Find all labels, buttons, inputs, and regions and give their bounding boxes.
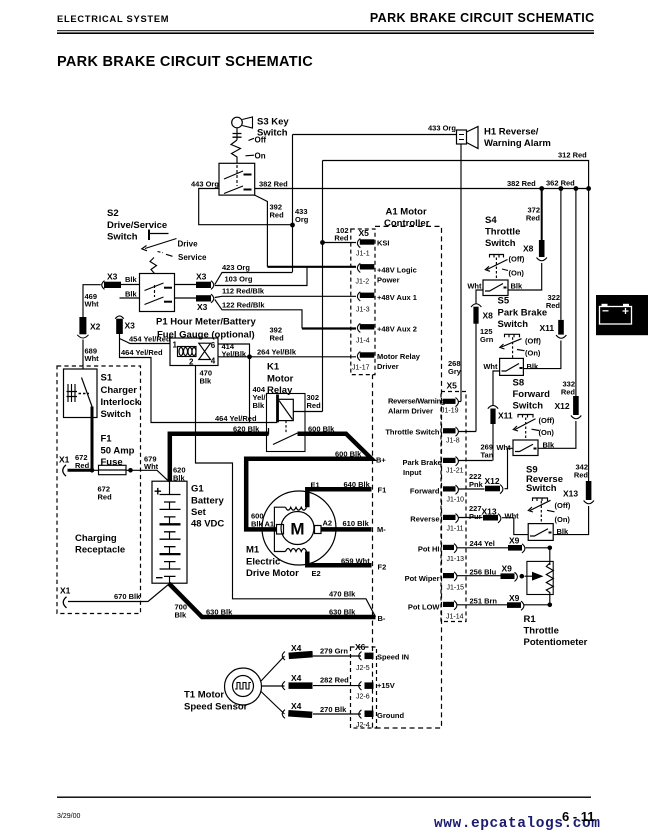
svg-text:X1: X1: [59, 455, 70, 465]
svg-text:X3: X3: [107, 272, 118, 282]
svg-text:KSI: KSI: [377, 239, 390, 248]
svg-text:+15V: +15V: [377, 681, 395, 690]
svg-text:Throttle: Throttle: [524, 626, 559, 637]
svg-text:Blk: Blk: [253, 401, 266, 410]
svg-text:J1-10: J1-10: [447, 497, 465, 504]
svg-text:659 Wht: 659 Wht: [341, 557, 370, 566]
svg-text:Pnk: Pnk: [469, 480, 484, 489]
svg-text:6: 6: [211, 341, 216, 350]
svg-text:103 Org: 103 Org: [225, 275, 253, 284]
svg-text:(Off): (Off): [525, 337, 541, 346]
svg-text:Wht: Wht: [483, 362, 498, 371]
svg-text:A2: A2: [323, 519, 333, 528]
svg-text:Wht: Wht: [144, 462, 159, 471]
svg-text:Pot HI: Pot HI: [418, 545, 440, 554]
svg-text:Ground: Ground: [377, 711, 404, 720]
svg-text:Alarm Driver: Alarm Driver: [388, 407, 433, 416]
svg-text:J1-1: J1-1: [356, 251, 370, 258]
svg-text:J2-4: J2-4: [356, 722, 370, 729]
svg-text:Potentiometer: Potentiometer: [524, 637, 588, 648]
svg-text:X8: X8: [483, 311, 494, 321]
svg-text:A1 Motor: A1 Motor: [386, 207, 427, 218]
svg-text:PARK BRAKE CIRCUIT SCHEMATIC: PARK BRAKE CIRCUIT SCHEMATIC: [57, 54, 313, 70]
svg-text:K1: K1: [267, 362, 280, 373]
svg-text:Blk: Blk: [125, 290, 138, 299]
svg-text:F1: F1: [101, 434, 113, 445]
svg-text:122 Red/Blk: 122 Red/Blk: [222, 301, 265, 310]
svg-text:464 Yel/Red: 464 Yel/Red: [215, 414, 257, 423]
svg-text:(On): (On): [525, 349, 541, 358]
svg-text:X5: X5: [447, 381, 458, 391]
svg-text:Drive: Drive: [178, 240, 199, 249]
svg-text:Switch: Switch: [498, 319, 529, 330]
svg-text:Receptacle: Receptacle: [75, 545, 125, 556]
svg-text:50 Amp: 50 Amp: [101, 446, 135, 457]
svg-text:M-: M-: [377, 525, 386, 534]
svg-text:423 Org: 423 Org: [222, 263, 250, 272]
svg-text:X3: X3: [196, 272, 207, 282]
svg-text:H1 Reverse/: H1 Reverse/: [484, 127, 539, 138]
svg-text:Forward: Forward: [513, 389, 551, 400]
svg-text:J1-13: J1-13: [447, 556, 465, 563]
svg-text:Fuse: Fuse: [101, 457, 123, 468]
svg-text:J1-11: J1-11: [447, 526, 464, 533]
svg-text:+48V Logic: +48V Logic: [377, 266, 417, 275]
svg-text:2: 2: [189, 358, 194, 367]
svg-text:+48V Aux 2: +48V Aux 2: [377, 325, 417, 334]
svg-text:S1: S1: [101, 373, 113, 384]
svg-text:3/29/00: 3/29/00: [57, 813, 80, 820]
svg-text:+: +: [154, 484, 162, 499]
svg-text:(Off): (Off): [539, 416, 555, 425]
svg-text:(Off): (Off): [555, 501, 571, 510]
svg-text:S4: S4: [485, 215, 497, 226]
svg-text:244 Yel: 244 Yel: [470, 539, 495, 548]
svg-text:X13: X13: [482, 507, 497, 517]
svg-text:Red: Red: [574, 471, 589, 480]
svg-text:382 Red: 382 Red: [507, 179, 536, 188]
svg-text:256 Blu: 256 Blu: [470, 568, 497, 577]
svg-text:X12: X12: [485, 476, 500, 486]
svg-text:S5: S5: [498, 296, 510, 307]
svg-text:264 Yel/Blk: 264 Yel/Blk: [257, 348, 297, 357]
svg-text:J1-4: J1-4: [356, 338, 370, 345]
svg-text:J2-6: J2-6: [356, 694, 370, 701]
svg-text:Pot LOW: Pot LOW: [408, 603, 441, 612]
svg-text:Speed Sensor: Speed Sensor: [184, 702, 248, 713]
svg-text:Wht: Wht: [496, 443, 511, 452]
svg-text:Blk: Blk: [125, 275, 138, 284]
svg-text:Gry: Gry: [448, 367, 462, 376]
svg-text:Wht: Wht: [467, 282, 482, 291]
svg-text:X9: X9: [502, 564, 513, 574]
svg-text:Blk: Blk: [200, 377, 213, 386]
svg-text:J1-2: J1-2: [356, 279, 370, 286]
svg-text:Yel/Blk: Yel/Blk: [222, 350, 247, 359]
svg-text:454 Yel/Red: 454 Yel/Red: [129, 335, 171, 344]
svg-text:Drive Motor: Drive Motor: [246, 568, 299, 579]
svg-text:Red: Red: [334, 234, 349, 243]
svg-text:X3: X3: [197, 302, 208, 312]
svg-text:Switch: Switch: [101, 409, 132, 420]
svg-text:S3 Key: S3 Key: [257, 117, 289, 128]
svg-text:Motor: Motor: [267, 374, 294, 385]
svg-text:640 Blk: 640 Blk: [344, 480, 371, 489]
svg-text:X3: X3: [125, 321, 136, 331]
svg-text:Wht: Wht: [85, 300, 100, 309]
svg-text:S8: S8: [513, 378, 525, 389]
svg-text:Red: Red: [270, 334, 285, 343]
svg-text:Power: Power: [377, 276, 400, 285]
svg-text:251 Brn: 251 Brn: [470, 597, 498, 606]
svg-text:P1 Hour Meter/Battery: P1 Hour Meter/Battery: [156, 317, 256, 328]
svg-text:J1-14: J1-14: [446, 614, 464, 621]
svg-text:(On): (On): [555, 515, 571, 524]
svg-text:X6: X6: [355, 642, 366, 652]
svg-text:Red: Red: [546, 301, 561, 310]
svg-text:Forward: Forward: [410, 487, 440, 496]
svg-text:610 Blk: 610 Blk: [343, 519, 370, 528]
svg-text:Service: Service: [178, 253, 207, 262]
svg-text:X11: X11: [540, 323, 555, 333]
svg-text:Blk: Blk: [251, 520, 264, 529]
svg-text:X8: X8: [523, 244, 534, 254]
svg-text:282 Red: 282 Red: [320, 676, 349, 685]
svg-text:382 Red: 382 Red: [259, 180, 288, 189]
svg-text:X5: X5: [359, 228, 370, 238]
svg-text:6 - 11: 6 - 11: [562, 809, 595, 824]
svg-text:Electric: Electric: [246, 557, 280, 568]
svg-text:Blk: Blk: [527, 362, 540, 371]
svg-text:Org: Org: [295, 215, 309, 224]
svg-text:Tan: Tan: [481, 451, 494, 460]
svg-text:X4: X4: [291, 643, 302, 653]
svg-text:M: M: [290, 520, 304, 539]
svg-text:X11: X11: [498, 411, 513, 421]
svg-text:J1-15: J1-15: [447, 585, 465, 592]
svg-text:Throttle Switch: Throttle Switch: [385, 428, 440, 437]
svg-text:Input: Input: [403, 468, 422, 477]
svg-text:Set: Set: [191, 507, 207, 518]
svg-text:−: −: [156, 570, 164, 585]
svg-text:Blk: Blk: [511, 282, 524, 291]
svg-text:Pur: Pur: [469, 512, 482, 521]
svg-text:J2-5: J2-5: [356, 665, 370, 672]
svg-text:1: 1: [173, 341, 178, 350]
svg-text:Controller: Controller: [384, 218, 430, 229]
svg-text:Red: Red: [561, 388, 576, 397]
svg-text:Blk: Blk: [543, 441, 556, 450]
svg-text:362 Red: 362 Red: [546, 179, 575, 188]
svg-text:Blk: Blk: [173, 474, 186, 483]
svg-text:Red: Red: [270, 211, 285, 220]
svg-text:433 Org: 433 Org: [428, 124, 456, 133]
svg-text:X4: X4: [291, 673, 302, 683]
svg-text:E2: E2: [312, 569, 321, 578]
svg-text:F1: F1: [378, 486, 387, 495]
svg-text:G1: G1: [191, 484, 204, 495]
svg-text:+48V Aux 1: +48V Aux 1: [377, 293, 417, 302]
svg-text:Park Brake: Park Brake: [403, 458, 442, 467]
svg-text:Charger: Charger: [101, 385, 138, 396]
svg-text:270 Blk: 270 Blk: [320, 705, 347, 714]
svg-text:279 Grn: 279 Grn: [320, 647, 348, 656]
svg-text:J1-17: J1-17: [352, 365, 370, 372]
svg-text:Warning Alarm: Warning Alarm: [484, 138, 551, 149]
svg-text:443 Org: 443 Org: [191, 180, 219, 189]
svg-text:Reverse: Reverse: [410, 515, 439, 524]
svg-text:Grn: Grn: [480, 335, 494, 344]
svg-text:(Off): (Off): [509, 255, 525, 264]
svg-text:Charging: Charging: [75, 533, 117, 544]
svg-text:Fuel Gauge (optional): Fuel Gauge (optional): [157, 330, 255, 341]
svg-text:X1: X1: [60, 586, 71, 596]
svg-text:Red: Red: [98, 493, 113, 502]
svg-text:470 Blk: 470 Blk: [329, 590, 356, 599]
svg-text:S2: S2: [107, 208, 119, 219]
svg-text:112 Red/Blk: 112 Red/Blk: [222, 287, 265, 296]
svg-text:Wht: Wht: [85, 354, 100, 363]
svg-text:(On): (On): [509, 269, 525, 278]
svg-text:Relay: Relay: [267, 385, 293, 396]
svg-text:(On): (On): [539, 428, 555, 437]
svg-text:Interlock: Interlock: [101, 397, 141, 408]
svg-text:Red: Red: [526, 214, 541, 223]
svg-text:Reverse/Warning: Reverse/Warning: [388, 397, 446, 406]
svg-text:X12: X12: [555, 401, 570, 411]
svg-text:Blk: Blk: [175, 611, 188, 620]
svg-text:Switch: Switch: [485, 238, 516, 249]
svg-text:312 Red: 312 Red: [558, 151, 587, 160]
svg-text:X4: X4: [291, 701, 302, 711]
svg-text:X9: X9: [509, 536, 520, 546]
svg-text:464 Yel/Red: 464 Yel/Red: [121, 348, 163, 357]
svg-text:Red: Red: [75, 461, 90, 470]
svg-text:J1-3: J1-3: [356, 307, 370, 314]
svg-text:J1-8: J1-8: [446, 438, 460, 445]
svg-text:On: On: [255, 152, 266, 161]
svg-text:E1: E1: [311, 481, 320, 490]
svg-text:Speed IN: Speed IN: [377, 653, 409, 662]
svg-text:Switch: Switch: [513, 401, 544, 412]
svg-text:670 Blk: 670 Blk: [114, 592, 141, 601]
svg-text:R1: R1: [524, 614, 537, 625]
svg-text:ELECTRICAL SYSTEM: ELECTRICAL SYSTEM: [57, 14, 169, 24]
svg-text:Battery: Battery: [191, 496, 224, 507]
svg-text:B-: B-: [378, 614, 386, 623]
svg-text:4: 4: [211, 357, 216, 366]
svg-text:Throttle: Throttle: [485, 227, 520, 238]
svg-text:X13: X13: [563, 489, 578, 499]
svg-text:48 VDC: 48 VDC: [191, 519, 224, 530]
svg-text:PARK BRAKE CIRCUIT SCHEMATIC: PARK BRAKE CIRCUIT SCHEMATIC: [370, 11, 595, 25]
svg-text:Switch: Switch: [107, 232, 138, 243]
svg-text:Switch: Switch: [526, 483, 557, 494]
svg-text:Wht: Wht: [505, 512, 520, 521]
svg-text:T1 Motor: T1 Motor: [184, 690, 224, 701]
svg-text:M1: M1: [246, 545, 260, 556]
svg-text:J1-21: J1-21: [446, 468, 464, 475]
svg-text:Blk: Blk: [557, 527, 570, 536]
svg-text:Red: Red: [307, 401, 322, 410]
svg-text:Pot Wiper: Pot Wiper: [405, 574, 440, 583]
svg-text:X2: X2: [90, 322, 101, 332]
svg-text:Motor Relay: Motor Relay: [377, 352, 421, 361]
svg-text:A1: A1: [265, 520, 275, 529]
svg-text:Driver: Driver: [377, 362, 399, 371]
svg-text:X9: X9: [509, 593, 520, 603]
svg-text:Park Brake: Park Brake: [498, 308, 548, 319]
svg-text:Drive/Service: Drive/Service: [107, 220, 167, 231]
svg-text:J1-19: J1-19: [441, 408, 459, 415]
svg-text:Off: Off: [255, 136, 267, 145]
svg-text:F2: F2: [378, 563, 387, 572]
svg-text:B+: B+: [376, 456, 386, 465]
